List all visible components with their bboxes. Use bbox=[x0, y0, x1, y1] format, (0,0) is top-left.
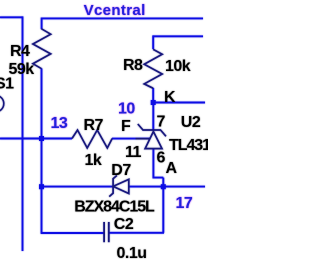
wire R8 top horizontal bbox=[153, 35, 203, 37]
svg-text:6: 6 bbox=[157, 150, 166, 167]
TL431 U2 symbol bbox=[136, 124, 167, 149]
svg-text:13: 13 bbox=[51, 115, 68, 132]
wire left vertical bbox=[22, 16, 24, 251]
svg-text:10k: 10k bbox=[165, 58, 191, 75]
svg-text:R8: R8 bbox=[123, 57, 143, 74]
svg-text:R7: R7 bbox=[84, 117, 104, 134]
svg-text:0.1u: 0.1u bbox=[117, 245, 147, 260]
svg-text:K: K bbox=[164, 89, 176, 106]
svg-text:7: 7 bbox=[157, 114, 166, 131]
wire Vcentral horizontal bbox=[42, 17, 203, 19]
resistor R4 zigzag bbox=[33, 29, 51, 69]
junction node 17 bbox=[161, 184, 166, 189]
wire node17 down to C2 right bbox=[162, 178, 164, 233]
svg-text:C2: C2 bbox=[114, 216, 134, 233]
wire R4 top lead bbox=[41, 18, 43, 30]
capacitor C2 plates bbox=[104, 222, 109, 242]
wire R8 top lead bbox=[152, 35, 154, 49]
svg-text:TL431: TL431 bbox=[169, 137, 208, 154]
svg-text:Vcentral: Vcentral bbox=[84, 2, 146, 19]
S1 partial circle bbox=[0, 95, 4, 112]
svg-text:17: 17 bbox=[176, 195, 193, 212]
wire top-left horizontal bbox=[0, 16, 23, 18]
junction node 13 bbox=[39, 136, 44, 141]
wire TL431 cathode lead bbox=[152, 103, 154, 130]
svg-text:11: 11 bbox=[125, 144, 142, 161]
wire C2 left horizontal bbox=[41, 232, 105, 234]
junction lower-left bbox=[39, 184, 44, 189]
svg-text:S1: S1 bbox=[0, 76, 14, 93]
wire C2 right horizontal bbox=[109, 232, 164, 234]
wire R4 bottom lead / vertical to C2 bbox=[41, 68, 43, 233]
resistor R8 zigzag bbox=[144, 49, 162, 88]
wire node 13 horizontal bbox=[0, 138, 72, 140]
wire junction to D7 cathode bbox=[42, 186, 114, 188]
junction K node bbox=[151, 100, 156, 105]
wire R7 to TL431 ref (net F) bbox=[112, 138, 150, 140]
zener diode D7 bbox=[109, 176, 129, 197]
svg-text:1k: 1k bbox=[85, 152, 102, 169]
wire K horizontal bbox=[153, 102, 205, 104]
svg-text:BZX84C15L: BZX84C15L bbox=[74, 199, 155, 216]
svg-text:10: 10 bbox=[118, 101, 135, 118]
wire TL431 anode jog bbox=[153, 148, 163, 178]
svg-text:R4: R4 bbox=[10, 43, 30, 60]
wire D7 anode to right edge (net 17) bbox=[129, 186, 205, 188]
svg-text:D7: D7 bbox=[111, 162, 131, 179]
svg-text:A: A bbox=[166, 160, 178, 177]
svg-text:F: F bbox=[121, 118, 131, 135]
resistor R7 zigzag bbox=[72, 130, 112, 148]
svg-text:U2: U2 bbox=[181, 114, 201, 131]
wire R8 bottom lead bbox=[152, 88, 154, 103]
